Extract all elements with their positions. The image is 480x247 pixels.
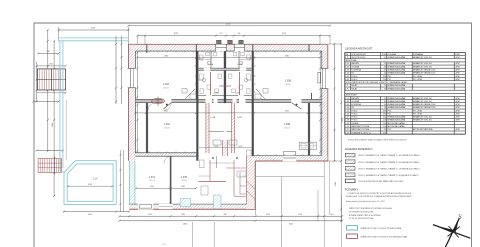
svg-text:KERAMICKÁ DLAŽBA: KERAMICKÁ DLAŽBA [388, 87, 406, 90]
svg-text:1.03: 1.03 [345, 104, 348, 106]
svg-text:2,1: 2,1 [384, 63, 386, 65]
dimension chain, long vertical left of stairs [53, 40, 55, 197]
notes body lines [346, 192, 413, 203]
svg-text:S: S [458, 215, 462, 221]
exterior wall left (new, red) [129, 44, 136, 161]
exterior wall right (new, red) [322, 44, 328, 161]
svg-text:1.01: 1.01 [345, 98, 348, 100]
svg-text:240: 240 [47, 51, 50, 53]
svg-text:8120: 8120 [282, 33, 286, 35]
svg-text:1.06: 1.06 [345, 113, 348, 115]
legend change not realized (red) [347, 234, 409, 238]
svg-text:19,8 m2: 19,8 m2 [163, 87, 169, 89]
svg-text:920: 920 [220, 33, 223, 35]
corridor wall (horizontal partition) [135, 99, 321, 103]
dimension chain between room and house [119, 150, 123, 212]
svg-text:1.07: 1.07 [345, 117, 348, 119]
right wall window [318, 68, 329, 88]
room area sublabels [149, 84, 291, 182]
svg-text:1.02: 1.02 [345, 66, 348, 68]
svg-text:1180: 1180 [181, 214, 185, 216]
svg-text:5980: 5980 [164, 55, 168, 57]
svg-text:1.10: 1.10 [345, 126, 348, 128]
svg-text:POKOJ: POKOJ [351, 79, 357, 81]
svg-text:KERAMICKÁ DLAŽBA: KERAMICKÁ DLAŽBA [388, 106, 406, 109]
svg-text:1.02: 1.02 [345, 101, 348, 103]
svg-text:5980: 5980 [285, 55, 289, 57]
svg-text:12650: 12650 [183, 224, 188, 226]
sanitary core left wall [196, 51, 198, 161]
svg-text:KERAMICKÁ DLAŽBA: KERAMICKÁ DLAŽBA [388, 56, 406, 59]
pier marks crossing top wall [147, 45, 309, 54]
svg-text:3,8: 3,8 [384, 101, 386, 103]
wing left wall (realized, cyan) [129, 161, 135, 205]
changes statement block [349, 207, 393, 220]
svg-text:7,3: 7,3 [384, 88, 386, 90]
wall hatch ticks inner faces [140, 51, 312, 155]
realized cyan pieces in bottom wall [180, 195, 221, 209]
svg-text:ÚČEL MÍSTNOSTI: ÚČEL MÍSTNOSTI [351, 53, 366, 56]
svg-text:KERAMICKÝ SOKL 100: KERAMICKÝ SOKL 100 [413, 97, 432, 100]
svg-text:1.03: 1.03 [345, 69, 348, 71]
svg-text:KERAMICKÁ DLAŽBA: KERAMICKÁ DLAŽBA [388, 116, 406, 119]
svg-text:ZMĚNA PROTI STAV. POVOLENÍ JIŽ: ZMĚNA PROTI STAV. POVOLENÍ JIŽ REALIZOVÁ… [361, 227, 402, 230]
material swatch ZDIVO Z KERAMICKÝCH [345, 153, 420, 157]
room dimension chain lower [134, 111, 322, 114]
svg-text:1900: 1900 [49, 64, 53, 66]
svg-text:ZDIVO Z KERAMICKÝCH TVÁRNIC TV: ZDIVO Z KERAMICKÝCH TVÁRNIC TVARNÉ TL. 3… [358, 154, 420, 157]
svg-text:KERAMICKÁ DLAŽBA: KERAMICKÁ DLAŽBA [388, 72, 406, 75]
svg-text:19,8 m2: 19,8 m2 [285, 84, 291, 86]
svg-text:4730: 4730 [91, 28, 95, 30]
svg-text:1.01A: 1.01A [214, 145, 219, 148]
partition wall right quadrant [308, 103, 310, 155]
svg-text:21,6: 21,6 [383, 126, 386, 128]
svg-text:KERAMICKÝ SOKL 100: KERAMICKÝ SOKL 100 [413, 119, 432, 122]
cluster lower extra detail [199, 145, 254, 197]
svg-text:2330: 2330 [181, 186, 185, 188]
dimension line small left [37, 51, 60, 55]
svg-text:POKOJ: POKOJ [351, 120, 357, 122]
material swatch ZDIVO Z KERAMICKÝCH [345, 160, 420, 164]
svg-text:KERAMICKÁ DLAŽBA: KERAMICKÁ DLAŽBA [388, 62, 406, 65]
svg-text:1.04: 1.04 [345, 107, 348, 109]
svg-text:KERAMICKÁ DLAŽBA: KERAMICKÁ DLAŽBA [388, 100, 406, 103]
bathroom fixtures unit B [229, 53, 251, 94]
svg-text:1,4: 1,4 [384, 73, 386, 75]
svg-text:17,8: 17,8 [383, 132, 386, 134]
room dimension chain upper [136, 55, 321, 58]
svg-text:KERAMICKÁ DLAŽBA: KERAMICKÁ DLAŽBA [388, 65, 406, 68]
bathroom fixtures unit A [200, 53, 222, 94]
svg-text:OBÝÚ PROSTOR: OBÝÚ PROSTOR [351, 56, 366, 59]
svg-text:890: 890 [331, 214, 334, 216]
staircase upper (plan) [38, 69, 66, 90]
sanitary core lower cross wall [199, 94, 252, 97]
svg-text:11730: 11730 [342, 118, 344, 122]
svg-text:KERAMICKÁ DLAŽBA: KERAMICKÁ DLAŽBA [388, 84, 406, 87]
svg-text:1.04B: 1.04B [237, 64, 243, 66]
svg-text:19,8: 19,8 [383, 76, 386, 78]
roof vents above wall [217, 40, 244, 43]
svg-text:KERAMICKÁ DLAŽBA: KERAMICKÁ DLAŽBA [388, 103, 406, 106]
core thin partitions upper [199, 51, 252, 80]
boundary line right of cyan band [65, 100, 67, 160]
svg-text:1.12: 1.12 [345, 132, 348, 134]
svg-text:4850: 4850 [285, 111, 289, 113]
svg-text:+0PM: +0PM [455, 57, 460, 59]
partition stub above corridor right [311, 93, 313, 99]
svg-text:1.05A: 1.05A [163, 83, 170, 86]
dimension line below room 1.10 [63, 211, 130, 216]
svg-text:8120: 8120 [174, 33, 178, 35]
svg-text:3,6: 3,6 [384, 69, 386, 71]
svg-text:KERAMICKÝ OBKLAD 2000: KERAMICKÝ OBKLAD 2000 [413, 103, 435, 106]
svg-text:PVC LIŠTA: PVC LIŠTA [413, 78, 423, 81]
material swatch ZDIVO Z KERAMICKÝCH [345, 167, 420, 171]
top wall window B gap [234, 44, 244, 51]
dimension line below stair1 [37, 92, 67, 94]
svg-text:SP DS/MVA/VYST/2003/521/HA: SP DS/MVA/VYST/2003/521/HA [349, 210, 374, 213]
svg-text:PARKOVACÍ PLOCHA: PARKOVACÍ PLOCHA [351, 125, 369, 128]
svg-text:19,8: 19,8 [383, 110, 386, 112]
svg-text:SP ZN. MV 8/2016/0002/521/HA: SP ZN. MV 8/2016/0002/521/HA [349, 217, 374, 220]
svg-text:+0PM: +0PM [455, 101, 460, 103]
legend change realized (cyan) [347, 226, 402, 230]
svg-text:+0PM: +0PM [455, 107, 460, 109]
svg-text:1970: 1970 [148, 214, 152, 216]
door arcs [164, 103, 171, 110]
svg-text:3,8: 3,8 [384, 66, 386, 68]
dimension line above cyan wall [58, 27, 130, 44]
svg-text:2890: 2890 [52, 123, 54, 127]
svg-text:920: 920 [238, 33, 241, 35]
svg-text:KERAMICKÝ OBKLAD 2000: KERAMICKÝ OBKLAD 2000 [413, 68, 435, 71]
svg-text:PLM²: PLM² [382, 53, 387, 56]
svg-text:3300: 3300 [150, 186, 154, 188]
svg-text:KERAMICKÝ OBKLAD 1200: KERAMICKÝ OBKLAD 1200 [413, 106, 435, 109]
door jambs room 1.05B [255, 89, 268, 100]
svg-text:KERAMICKÝ OBKLAD 1200: KERAMICKÝ OBKLAD 1200 [413, 72, 435, 75]
svg-text:+0PM: +0PM [455, 104, 460, 106]
svg-text:5260: 5260 [88, 214, 92, 216]
svg-text:+0PM: +0PM [455, 66, 460, 68]
svg-text:BETONOVÁ TVAROVKA: BETONOVÁ TVAROVKA [413, 128, 433, 131]
svg-text:KERAMICKÝ SOKL 100: KERAMICKÝ SOKL 100 [413, 65, 432, 68]
rotated dim numbers right [335, 118, 344, 186]
svg-text:4250: 4250 [88, 184, 92, 186]
door jambs room 1.05A [182, 89, 196, 100]
svg-text:BETONOVÁ DLAŽBA: BETONOVÁ DLAŽBA [388, 122, 406, 125]
svg-text:ZDIVO Z KERAMICKÝCH TVÁRNIC TV: ZDIVO Z KERAMICKÝCH TVÁRNIC TVARNÉ TL. 8… [358, 174, 419, 177]
core red walls lower section [199, 140, 251, 196]
dimension chain right of building [328, 43, 342, 222]
svg-text:ZDIVO A KONSTRUKCE BEZ ZMĚN ST: ZDIVO A KONSTRUKCE BEZ ZMĚN STAV. POVOLE… [358, 180, 403, 183]
svg-text:23,6: 23,6 [383, 113, 386, 115]
dimension chain hugging left wall [115, 36, 123, 104]
svg-text:TERASA: TERASA [351, 122, 359, 125]
svg-text:6,2: 6,2 [384, 57, 386, 59]
svg-text:1.02B: 1.02B [237, 117, 243, 119]
svg-text:SPOLEČNÉ PROSTORY PRO VŠECHNY: SPOLEČNÉ PROSTORY PRO VŠECHNY JEDNOTKY -… [346, 81, 409, 84]
terrace edge near right wall [329, 161, 331, 215]
svg-text:POKOJ: POKOJ [351, 76, 357, 78]
svg-text:1.02A: 1.02A [210, 116, 216, 119]
svg-text:1.11: 1.11 [345, 129, 348, 131]
svg-text:4850: 4850 [164, 111, 168, 113]
terrace outline [256, 161, 342, 247]
svg-text:1.04A: 1.04A [208, 63, 214, 66]
svg-text:SIGNALIZACE TYP A SYSTÉM DLE P: SIGNALIZACE TYP A SYSTÉM DLE POŽÁRNĚ BEZ… [346, 195, 413, 198]
svg-text:20250: 20250 [226, 24, 231, 26]
sanitary core cross wall [199, 68, 252, 71]
svg-text:ZDIVO Z KERAMICKÝCH TVÁRNIC TV: ZDIVO Z KERAMICKÝCH TVÁRNIC TVARNÉ TL. 1… [358, 167, 420, 170]
svg-text:ZÁDVEŘÍ: ZÁDVEŘÍ [351, 62, 359, 65]
room 1.10 outer cyan wall [64, 161, 116, 205]
svg-text:POKUD NENÍ UVEDENO JINAK, PROV: POKUD NENÍ UVEDENO JINAK, PROVÁDĚT DŘÍVE… [348, 138, 408, 141]
bottom wall window with sill [283, 152, 296, 162]
svg-text:KERAMICKÝ SOKL 100: KERAMICKÝ SOKL 100 [413, 116, 432, 119]
top wall window A gap [216, 44, 226, 51]
svg-text:12,8 m2: 12,8 m2 [181, 180, 187, 182]
svg-text:1.04: 1.04 [345, 73, 348, 75]
svg-text:+0PM: +0PM [455, 69, 460, 71]
staircase lower (plan) [38, 157, 61, 174]
svg-text:SKLAD: SKLAD [351, 87, 357, 90]
north arrow [433, 215, 470, 247]
wing right wall (new, red) [246, 156, 255, 209]
svg-text:1,4: 1,4 [384, 107, 386, 109]
room 1.10 inner cyan wall [67, 164, 113, 201]
dimension line inside room 1.10 [67, 184, 114, 187]
svg-text:POKOJ: POKOJ [351, 117, 357, 119]
svg-text:ZÁDVEŘÍ: ZÁDVEŘÍ [351, 97, 359, 100]
svg-text:+0PM: +0PM [455, 110, 460, 112]
sanitary core centre wall [224, 51, 226, 103]
svg-text:1250: 1250 [266, 214, 270, 216]
svg-text:1.03B: 1.03B [235, 92, 241, 94]
svg-text:1.07A: 1.07A [149, 176, 156, 179]
svg-text:PARKOVACÍ PLOCHA: PARKOVACÍ PLOCHA [351, 128, 369, 131]
svg-text:KERAMICKÁ DLAŽBA: KERAMICKÁ DLAŽBA [388, 97, 406, 100]
svg-text:KERAMICKÁ DLAŽBA: KERAMICKÁ DLAŽBA [388, 119, 406, 122]
svg-text:A ZMĚNĚ STAVBY PŘED DOKONČENÍM: A ZMĚNĚ STAVBY PŘED DOKONČENÍM [349, 214, 381, 217]
corridor door leaves [163, 103, 301, 109]
svg-text:PVC LIŠTA: PVC LIŠTA [413, 109, 423, 112]
interior vertical dim chains [136, 52, 321, 156]
svg-text:KERAMICKÝ SOKL 100: KERAMICKÝ SOKL 100 [413, 56, 432, 59]
projection lines to lower drawing [193, 222, 215, 247]
svg-text:ZMĚNA PROTI STAV. POVOLENÍ DOS: ZMĚNA PROTI STAV. POVOLENÍ DOSUD NEREALI… [361, 235, 409, 238]
svg-text:2,1: 2,1 [384, 98, 386, 100]
svg-text:ZMĚNY PROTI PLATNÉMU SPOLEČNÉM: ZMĚNY PROTI PLATNÉMU SPOLEČNÉMU SOUHLASU [349, 207, 393, 210]
legend rooms table [345, 53, 466, 135]
svg-text:1.03A: 1.03A [214, 91, 220, 94]
svg-text:+0PM: +0PM [455, 129, 460, 131]
svg-text:LEGENDA MÍSTNOSTÍ: LEGENDA MÍSTNOSTÍ [345, 47, 372, 51]
svg-text:2,6: 2,6 [384, 129, 386, 131]
sanitary core right wall [252, 51, 254, 161]
svg-text:+0PM: +0PM [455, 79, 460, 81]
svg-text:1.01: 1.01 [345, 63, 348, 65]
svg-text:POKOJ: POKOJ [351, 110, 357, 112]
svg-text:1.07B: 1.07B [181, 176, 188, 179]
svg-text:PVC LIŠTA: PVC LIŠTA [413, 75, 423, 78]
bottom dimension row 1 [118, 214, 343, 217]
entry partition walls below corridor [206, 103, 237, 153]
svg-text:+0PM: +0PM [455, 120, 460, 122]
material swatch ZDIVO Z KERAMICKÝCH [345, 173, 419, 177]
svg-text:POKOJ: POKOJ [351, 113, 357, 115]
svg-text:+0PM: +0PM [455, 63, 460, 65]
core red partition segments [199, 59, 252, 95]
svg-text:+0PM: +0PM [455, 98, 460, 100]
svg-text:KERAMICKÝ SOKL 100: KERAMICKÝ SOKL 100 [413, 62, 432, 65]
svg-text:3,6: 3,6 [384, 104, 386, 106]
svg-text:1.10: 1.10 [93, 177, 98, 180]
bottom exterior wall right part [248, 156, 328, 162]
svg-text:PODLAHA: PODLAHA [388, 53, 397, 56]
svg-text:8650: 8650 [289, 224, 293, 226]
partial dimension line above building [136, 33, 331, 44]
svg-text:1.05B: 1.05B [285, 80, 292, 83]
kitchen counter room 1.06B [299, 142, 316, 149]
svg-text:POZNÁMKA: POZNÁMKA [413, 53, 424, 56]
svg-text:POZNÁMKY: POZNÁMKY [345, 189, 359, 192]
svg-text:1.06: 1.06 [345, 79, 348, 81]
svg-text:4980: 4980 [335, 182, 337, 186]
material swatch ZDIVO A KONSTRUKCE B [345, 179, 403, 183]
svg-text:1.08: 1.08 [345, 120, 348, 122]
svg-text:7,3: 7,3 [384, 85, 386, 87]
svg-text:JEDNOTKA A: JEDNOTKA A [346, 59, 358, 62]
svg-text:13,1 m2: 13,1 m2 [149, 180, 155, 182]
svg-text:KOUPELNA: KOUPELNA [351, 68, 361, 71]
overall dimension line above building [127, 24, 331, 27]
svg-text:23,6: 23,6 [383, 79, 386, 81]
svg-text:CHODBA: CHODBA [351, 65, 359, 68]
dimension chain, left margin vertical [36, 29, 49, 152]
bottom dimension row 2 [118, 220, 343, 226]
svg-text:13,1: 13,1 [383, 117, 386, 119]
svg-text:– V OBJEKTU SE MUSÍ BÝT SYSTÉM: – V OBJEKTU SE MUSÍ BÝT SYSTÉM PNP V ZÁT… [346, 192, 412, 195]
svg-text:KOUPELNA: KOUPELNA [351, 103, 361, 106]
svg-text:CHODBA: CHODBA [351, 100, 359, 103]
dimension line left of window [32, 100, 59, 102]
svg-text:PVC LIŠTA: PVC LIŠTA [413, 112, 423, 115]
realized cyan wall, horizontal top run [59, 38, 129, 41]
wall tick marks cluster [195, 58, 256, 92]
svg-text:21,6: 21,6 [383, 123, 386, 125]
svg-text:1.06A: 1.06A [164, 123, 171, 126]
svg-text:KERAMICKÝ SOKL 100: KERAMICKÝ SOKL 100 [413, 100, 432, 103]
svg-text:1.09: 1.09 [345, 123, 348, 125]
partition wall left quadrant [146, 103, 148, 153]
svg-text:POSEZENÍ VL.OD N. 1.1: POSEZENÍ VL.OD N. 1.1 [351, 131, 371, 134]
svg-text:980: 980 [224, 214, 227, 216]
dimension line above lower stair [36, 150, 65, 152]
svg-text:+0PM: +0PM [455, 76, 460, 78]
svg-text:1.01B: 1.01B [238, 146, 243, 148]
exterior wall top (new, red) [128, 44, 327, 51]
svg-text:BETONOVÁ DLAŽBA: BETONOVÁ DLAŽBA [388, 125, 406, 128]
svg-text:Stavba zkolaud. před dokončení: Stavba zkolaud. před dokončením dne 5. 1… [346, 200, 385, 203]
realized cyan wall, vertical run [60, 41, 65, 173]
svg-text:KERAMICKÁ DLAŽBA: KERAMICKÁ DLAŽBA [388, 68, 406, 71]
svg-text:1.06B: 1.06B [284, 123, 291, 126]
rotated dim numbers left [46, 73, 54, 127]
svg-text:1740: 1740 [298, 214, 302, 216]
left wall window [128, 68, 136, 87]
svg-text:+0PM: +0PM [455, 73, 460, 75]
wing partition wall [170, 156, 172, 204]
svg-text:23,6 m2: 23,6 m2 [164, 127, 170, 129]
interior wall below rooms 1.06 (left) [135, 153, 198, 156]
partition stub above corridor left [195, 51, 197, 99]
svg-text:23,6 m2: 23,6 m2 [284, 127, 290, 129]
svg-text:+0PM: +0PM [455, 117, 460, 119]
wing bottom exterior wall [129, 204, 255, 210]
svg-text:POZN.: POZN. [455, 54, 461, 56]
svg-text:JEDNOTKA B: JEDNOTKA B [346, 94, 358, 97]
svg-text:+0PM: +0PM [455, 113, 460, 115]
red opening mark in corridor wall [151, 97, 165, 107]
svg-text:SKLAD: SKLAD [351, 84, 357, 87]
svg-text:ZDIVO Z KERAMICKÝCH TVÁRNIC TV: ZDIVO Z KERAMICKÝCH TVÁRNIC TVARNÉ TL. 3… [358, 161, 420, 164]
wing room dimension line [135, 186, 197, 189]
dimension line above stair1 [37, 64, 67, 67]
svg-text:1.05: 1.05 [345, 110, 348, 112]
svg-text:12,8: 12,8 [383, 120, 386, 122]
svg-text:1.05: 1.05 [345, 76, 348, 78]
